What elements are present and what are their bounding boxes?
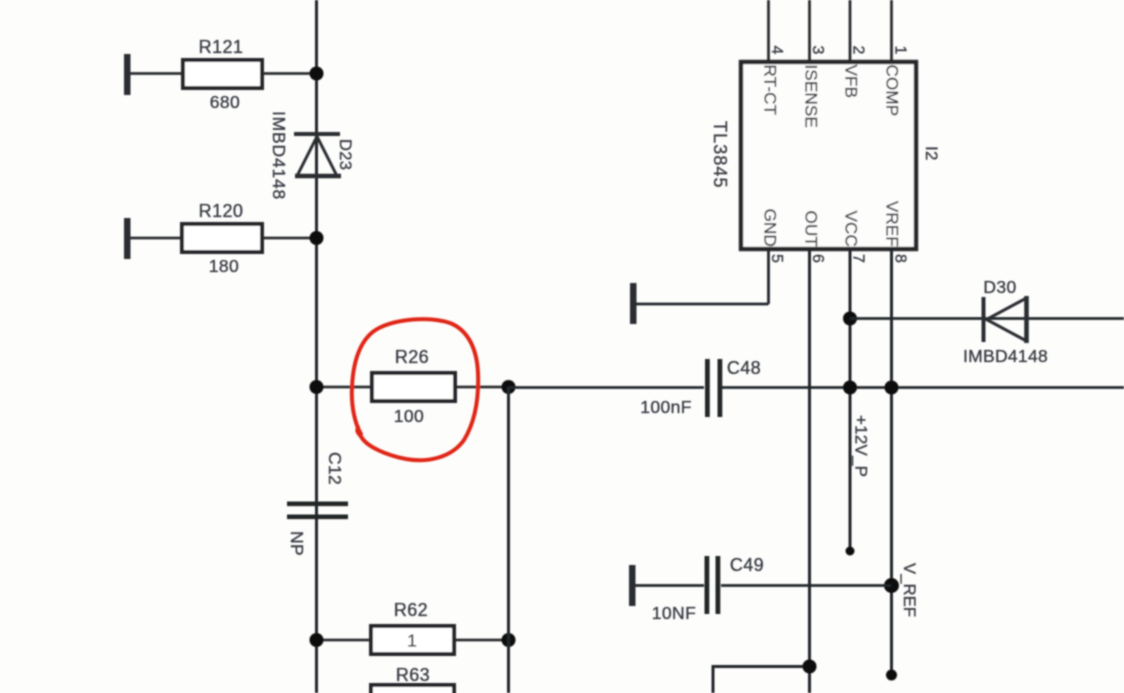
IC U2 TL3845 body	[710, 62, 941, 249]
svg-text:8: 8	[892, 254, 909, 263]
pin 4 label RT-CT	[761, 46, 786, 116]
node junction R62 left / bus	[310, 633, 324, 647]
wire pin 8 VREF column down	[890, 249, 893, 675]
svg-text:10NF: 10NF	[652, 603, 696, 623]
svg-text:1: 1	[407, 631, 417, 651]
node junction R26 left / bus	[310, 380, 324, 394]
node end dot V_REF	[886, 670, 897, 681]
net label +12V_P	[852, 415, 871, 477]
resistor R26	[316, 347, 509, 426]
pin 1 label COMP	[883, 46, 909, 117]
pin 8 label VREF	[883, 201, 909, 263]
svg-text:C49: C49	[730, 555, 764, 575]
svg-text:VFB: VFB	[842, 65, 861, 99]
svg-text:I2: I2	[922, 146, 941, 161]
svg-text:R121: R121	[199, 37, 244, 57]
svg-text:NP: NP	[287, 531, 307, 556]
pin 5 label GND	[761, 209, 786, 263]
node junction VCC / D30 wire	[843, 312, 857, 326]
wire pin 3 stub top	[808, 0, 811, 62]
svg-text:180: 180	[209, 256, 239, 276]
svg-text:IMBD4148: IMBD4148	[963, 346, 1048, 366]
capacitor C49 10NF	[629, 555, 891, 623]
svg-text:GND: GND	[761, 209, 780, 247]
resistor R63 (cut off at bottom edge)	[371, 665, 454, 693]
svg-text:3: 3	[809, 46, 826, 55]
resistor R62	[316, 600, 509, 654]
svg-text:4: 4	[768, 46, 785, 55]
wire R26 node to C48	[509, 386, 704, 389]
svg-text:6: 6	[809, 254, 826, 263]
wire pin 6 OUT column down	[808, 249, 811, 693]
svg-text:D23: D23	[336, 139, 354, 170]
svg-text:IMBD4148: IMBD4148	[269, 111, 289, 200]
svg-text:C12: C12	[325, 452, 345, 485]
svg-text:D30: D30	[983, 277, 1016, 297]
svg-text:R63: R63	[396, 665, 430, 685]
node junction R62 right	[502, 633, 516, 647]
svg-text:2: 2	[850, 46, 867, 55]
capacitor C48 100nF	[640, 358, 761, 417]
diode D23 IMBD4148	[269, 111, 354, 200]
svg-text:VREF: VREF	[883, 201, 902, 247]
svg-text:V_REF: V_REF	[900, 563, 918, 617]
wire bottom corner into pin6 column	[713, 667, 810, 693]
node junction VREF / C48 net	[885, 381, 899, 395]
node junction R121 / bus	[310, 67, 324, 81]
net label V_REF	[900, 563, 918, 617]
node junction OUT bottom	[803, 660, 817, 674]
wire pin 7 VCC column down (+12V_P)	[849, 249, 852, 551]
svg-text:R26: R26	[395, 347, 429, 367]
pin 2 label VFB	[842, 46, 867, 99]
svg-text:R62: R62	[394, 600, 428, 620]
svg-text:1: 1	[892, 46, 909, 55]
svg-text:VCC: VCC	[842, 211, 861, 248]
wire right vertical from R26 to R62 and below	[507, 387, 510, 693]
node junction VCC / C48 net	[843, 381, 857, 395]
pin 3 label ISENSE	[802, 46, 827, 129]
svg-text:C48: C48	[727, 358, 761, 378]
svg-text:100: 100	[394, 406, 424, 426]
svg-text:680: 680	[210, 92, 240, 112]
node junction R120 / bus	[310, 231, 324, 245]
svg-text:OUT: OUT	[802, 211, 821, 247]
wire pin 4 stub top	[767, 0, 770, 62]
svg-text:+12V_P: +12V_P	[852, 415, 871, 477]
svg-text:100nF: 100nF	[640, 397, 692, 417]
svg-text:COMP: COMP	[883, 65, 902, 117]
resistor R121	[124, 37, 316, 112]
capacitor C12	[287, 452, 348, 556]
wire pin 1 stub top	[890, 0, 893, 62]
svg-text:ISENSE: ISENSE	[802, 65, 821, 129]
wire C48 to VCC/VREF columns and right edge	[722, 386, 1124, 389]
pin 7 label VCC	[842, 211, 867, 264]
pin 6 label OUT	[802, 211, 827, 263]
node junction R26 right	[502, 380, 516, 394]
svg-text:7: 7	[850, 254, 867, 263]
svg-text:R120: R120	[199, 201, 244, 221]
ground terminal for pin 5	[630, 249, 769, 324]
wire main left vertical bus	[315, 0, 318, 693]
diode D30 IMBD4148	[963, 277, 1048, 366]
node end dot +12V_P	[846, 547, 855, 556]
svg-text:RT-CT: RT-CT	[761, 65, 780, 116]
resistor R120	[124, 201, 316, 276]
svg-text:5: 5	[768, 254, 785, 263]
wire pin 2 stub top	[849, 0, 852, 62]
red annotation circle around R26	[352, 319, 478, 460]
svg-text:TL3845: TL3845	[710, 121, 730, 189]
node junction VREF / C49 net	[884, 578, 899, 593]
wire D30 horizontal to right edge	[850, 317, 1124, 320]
